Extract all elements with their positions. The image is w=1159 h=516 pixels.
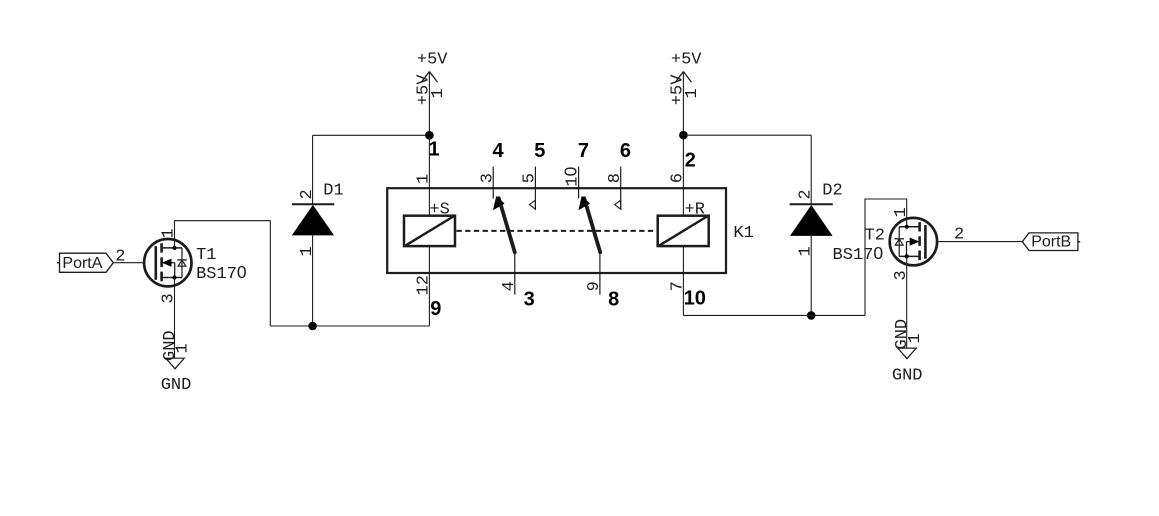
svg-text:+5V: +5V (671, 50, 702, 69)
svg-text:1: 1 (298, 246, 317, 256)
svg-text:GND: GND (892, 366, 923, 385)
wire (D2 anode down) (810, 236, 812, 316)
power +5V (right) (668, 50, 702, 135)
ground (right GND symbol) (892, 319, 925, 386)
svg-text:D2: D2 (822, 182, 842, 201)
svg-text:3: 3 (892, 270, 911, 280)
svg-text:10: 10 (684, 288, 706, 310)
node PortA (global label flag) (57, 253, 113, 272)
junction (D1 anode / bottom rail) (308, 322, 317, 331)
wire (bottom rail to relay pin 12) (270, 325, 429, 327)
svg-text:5: 5 (521, 173, 540, 183)
svg-text:3: 3 (524, 288, 535, 310)
junction (+5V right node) (679, 131, 688, 140)
junction (+5V left node) (425, 131, 434, 140)
svg-text:1: 1 (906, 333, 925, 343)
junction (D2 anode / bottom rail right) (807, 311, 816, 320)
wire (T1 source down to GND) (174, 278, 176, 359)
svg-text:4: 4 (493, 140, 505, 162)
wire (T2 gate to PortB) (937, 241, 1022, 243)
svg-text:2: 2 (954, 226, 964, 245)
wire (relay pin 12 to bottom rail) (428, 246, 430, 326)
wire (top rail D1 to +5V) (313, 134, 430, 136)
mechanical link (dashed) (457, 230, 657, 232)
svg-text:1: 1 (683, 88, 702, 98)
svg-text:PortB: PortB (1031, 234, 1071, 251)
svg-text:GND: GND (161, 376, 192, 395)
wire (D1 anode down to bottom rail) (312, 235, 314, 326)
svg-text:1: 1 (797, 246, 816, 256)
transistor T2 (833, 207, 938, 280)
svg-text:1: 1 (160, 228, 179, 238)
svg-text:12: 12 (415, 275, 434, 295)
wire (D2 cathode up) (810, 135, 812, 204)
wire (PortA to T1 gate) (113, 262, 144, 264)
svg-text:1: 1 (173, 343, 192, 353)
wire (relay pin 6 from +5V) (682, 135, 684, 216)
relay K1 body (387, 188, 726, 273)
wire (relay pin 7 down) (682, 246, 684, 315)
svg-text:7: 7 (578, 140, 589, 162)
diode D1 (292, 182, 344, 257)
relay pin number labels (rotated) (415, 166, 688, 295)
svg-text:4: 4 (500, 281, 519, 291)
wire (T1 drain up/right/down to bottom rail) (175, 221, 271, 326)
wire (T2 source down to GND) (906, 256, 908, 348)
coil +R (658, 201, 709, 246)
svg-text:2: 2 (298, 189, 317, 199)
svg-text:1: 1 (429, 88, 448, 98)
svg-text:T1: T1 (196, 246, 216, 265)
svg-text:2: 2 (115, 248, 125, 267)
relay contact numbers (bold) (429, 138, 706, 320)
ground (left GND symbol) (161, 330, 193, 395)
svg-text:3: 3 (160, 293, 179, 303)
wire (relay pin 7 to T2 drain branch) (683, 314, 865, 316)
svg-text:1: 1 (415, 174, 434, 184)
svg-text:D1: D1 (323, 182, 343, 201)
relay switch 2 (pins 10-9-8) (578, 167, 620, 295)
svg-text:9: 9 (430, 298, 441, 320)
coil +S (404, 201, 455, 246)
svg-text:8: 8 (606, 173, 625, 183)
power +5V (left) (414, 50, 448, 135)
svg-text:2: 2 (797, 189, 816, 199)
svg-text:9: 9 (585, 281, 604, 291)
svg-text:PortA: PortA (62, 255, 102, 272)
svg-text:2: 2 (685, 150, 696, 172)
relay switch 1 (pins 3-4-5) (493, 167, 535, 295)
svg-text:10: 10 (561, 166, 583, 186)
wire (relay pin 1 from +5V) (428, 135, 430, 215)
svg-text:+5V: +5V (417, 50, 448, 69)
diode D2 (790, 182, 843, 257)
svg-text:BS170: BS170 (833, 243, 884, 265)
wire (T2 drain loop) (865, 199, 907, 315)
wire (D1 cathode up to +5V rail) (312, 135, 314, 204)
svg-text:+R: +R (685, 201, 705, 220)
node PortB (global label flag) (1022, 233, 1080, 251)
svg-text:8: 8 (608, 288, 619, 310)
svg-text:1: 1 (429, 138, 440, 160)
transistor T1 (144, 228, 247, 303)
svg-text:+S: +S (429, 201, 449, 220)
svg-text:6: 6 (620, 140, 631, 162)
wire (top rail +5V to D2) (683, 134, 811, 136)
svg-text:1: 1 (892, 207, 911, 217)
svg-text:BS170: BS170 (196, 262, 247, 284)
svg-text:3: 3 (478, 173, 497, 183)
svg-text:6: 6 (669, 173, 688, 183)
svg-text:K1: K1 (733, 224, 753, 243)
svg-text:5: 5 (534, 140, 545, 162)
